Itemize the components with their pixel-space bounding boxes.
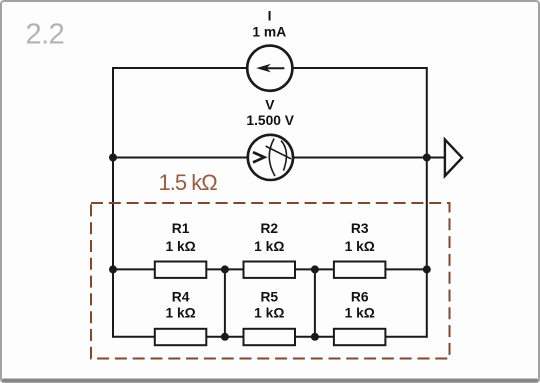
output terminal triangle <box>445 140 462 177</box>
svg-text:2.2: 2.2 <box>26 19 65 51</box>
resistor R6 <box>334 329 386 345</box>
svg-text:R6: R6 <box>351 290 369 305</box>
svg-text:1.500 V: 1.500 V <box>246 113 294 128</box>
junction node C top <box>311 265 319 273</box>
wire node B column <box>224 269 226 336</box>
resistor R3 <box>334 262 386 278</box>
svg-text:R5: R5 <box>260 290 278 305</box>
current source I1 <box>247 46 292 91</box>
junction left voltmeter row <box>109 154 117 162</box>
svg-text:V: V <box>265 98 275 113</box>
svg-text:1 kΩ: 1 kΩ <box>345 306 375 321</box>
svg-text:R2: R2 <box>260 221 278 236</box>
svg-text:I: I <box>268 9 272 24</box>
resistor R2 <box>244 262 296 278</box>
junction node C bottom <box>311 333 319 341</box>
junction node B top <box>221 265 229 273</box>
wire right rail <box>426 67 428 338</box>
svg-text:R3: R3 <box>351 221 369 236</box>
junction node B bottom <box>221 333 229 341</box>
svg-text:1 mA: 1 mA <box>252 25 286 40</box>
svg-text:1 kΩ: 1 kΩ <box>345 239 375 254</box>
junction right top row <box>423 265 431 273</box>
svg-text:R4: R4 <box>172 290 190 305</box>
wire node C column <box>314 269 316 336</box>
svg-text:1.5 kΩ: 1.5 kΩ <box>159 170 218 195</box>
wire top horizontal <box>113 67 427 69</box>
svg-text:R1: R1 <box>172 221 190 236</box>
wire top resistor row <box>113 268 427 270</box>
equivalent resistance dashed box <box>91 203 450 359</box>
wire bottom resistor row <box>113 336 427 338</box>
svg-text:1 kΩ: 1 kΩ <box>165 239 195 254</box>
resistor R4 <box>155 329 207 345</box>
svg-text:1 kΩ: 1 kΩ <box>254 239 284 254</box>
svg-text:1 kΩ: 1 kΩ <box>254 306 284 321</box>
voltmeter V1 <box>248 135 293 180</box>
svg-text:1 kΩ: 1 kΩ <box>165 306 195 321</box>
junction left top row <box>109 265 117 273</box>
wire voltmeter row <box>113 157 445 159</box>
resistor R5 <box>244 329 296 345</box>
wire left rail <box>112 67 114 338</box>
junction right voltmeter row <box>423 154 431 162</box>
resistor R1 <box>155 262 207 278</box>
